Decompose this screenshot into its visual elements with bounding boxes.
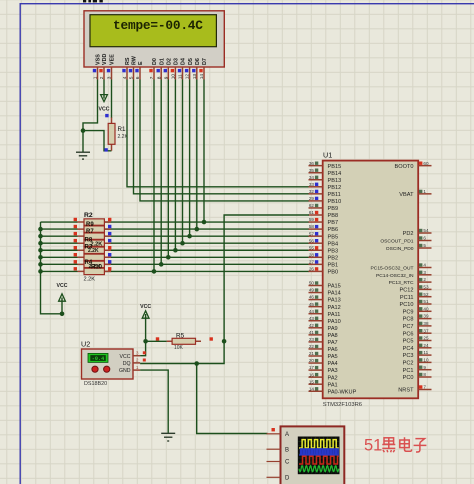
- svg-text:2: 2: [423, 277, 426, 282]
- wire VDD pin2 to VCC power: [103, 80, 105, 99]
- svg-text:6: 6: [135, 76, 141, 79]
- svg-text:58: 58: [309, 224, 315, 229]
- U1 pin PB15 (36): [309, 161, 342, 170]
- svg-text:PA3: PA3: [328, 368, 338, 374]
- U1 pin PA10 (43): [309, 316, 341, 325]
- svg-text:D1: D1: [159, 58, 165, 65]
- svg-text:PA2: PA2: [328, 375, 338, 381]
- junction node bus corner: [60, 312, 65, 317]
- wire DQ branch to oscilloscope A: [197, 364, 268, 434]
- LCD pin 8 D1: [156, 58, 165, 79]
- U1 pin PB6 (58): [309, 224, 339, 233]
- R1 top pin state square: [105, 114, 108, 117]
- junction node bus row 4: [38, 241, 43, 246]
- svg-text:R9: R9: [86, 222, 94, 228]
- svg-text:STM32F103R6: STM32F103R6: [323, 402, 362, 408]
- svg-text:PC10: PC10: [400, 302, 414, 308]
- U1 pin PB4 (56): [309, 238, 339, 247]
- svg-text:PB11: PB11: [328, 192, 341, 198]
- svg-text:PB2: PB2: [328, 255, 339, 261]
- svg-text:38: 38: [423, 321, 429, 326]
- U1 pin PA14 (49): [309, 288, 341, 297]
- wire U2 GND pin to ground: [140, 370, 168, 433]
- svg-text:D3: D3: [174, 58, 180, 65]
- wire D0 (LCD) vertical drop: [153, 80, 155, 272]
- oscilloscope body: [281, 426, 345, 484]
- resistor R5 10K: [167, 338, 201, 344]
- wire data row D6 to U1: [104, 228, 309, 230]
- svg-text:59: 59: [309, 217, 315, 222]
- svg-text:45: 45: [309, 302, 315, 307]
- svg-text:BOOT0: BOOT0: [395, 164, 414, 170]
- svg-text:VCC: VCC: [140, 304, 151, 310]
- svg-text:DQ: DQ: [123, 361, 131, 367]
- U1 pin PA2 (16): [309, 372, 338, 381]
- svg-text:D6: D6: [195, 58, 201, 65]
- svg-text:R2: R2: [84, 212, 93, 219]
- oscilloscope trace channel B (blue): [299, 449, 339, 455]
- svg-text:10: 10: [423, 358, 429, 363]
- svg-text:PC8: PC8: [403, 317, 414, 323]
- U1 pin PC8 (39): [403, 314, 432, 323]
- svg-text:21: 21: [309, 351, 315, 356]
- svg-text:27: 27: [309, 259, 315, 264]
- U2 pin VCC (3): [120, 351, 146, 360]
- U1 pin PB0 (26): [309, 267, 339, 276]
- svg-text:PA1: PA1: [328, 382, 338, 388]
- U1 pin PB14 (35): [309, 168, 342, 177]
- junction node bus row 7: [38, 262, 43, 267]
- temperature sensor U2 DS18B20 body: [82, 349, 134, 379]
- cut-off label text at top edge: [83, 0, 103, 2]
- svg-text:43: 43: [309, 316, 315, 321]
- svg-text:PB4: PB4: [328, 241, 339, 247]
- U1 pin PA0-WKUP (14): [309, 386, 357, 395]
- svg-text:E: E: [138, 61, 144, 65]
- svg-text:15: 15: [309, 379, 315, 384]
- svg-text:PC6: PC6: [403, 331, 414, 337]
- U2 increment button: [92, 366, 98, 372]
- U2 pin DQ (2): [123, 358, 146, 367]
- svg-text:PB9: PB9: [328, 206, 339, 212]
- svg-text:55: 55: [309, 245, 315, 250]
- svg-text:VCC: VCC: [57, 283, 68, 289]
- junction node D6: [195, 227, 200, 232]
- svg-text:41: 41: [309, 330, 315, 335]
- svg-text:R10: R10: [91, 265, 103, 271]
- svg-text:D2: D2: [167, 58, 173, 65]
- svg-text:OSCOUT_PD1: OSCOUT_PD1: [380, 239, 413, 245]
- svg-text:R1: R1: [118, 126, 126, 133]
- svg-text:GND: GND: [119, 368, 131, 374]
- svg-text:VSS: VSS: [96, 54, 102, 65]
- junction node DQ/R5: [222, 339, 227, 344]
- wire D3 (LCD) vertical drop: [174, 80, 176, 251]
- junction node bus row 5: [38, 248, 43, 253]
- svg-text:D7: D7: [202, 58, 208, 65]
- U1 pin PC5 (25): [403, 336, 432, 345]
- svg-text:B: B: [285, 447, 289, 453]
- svg-text:34: 34: [309, 175, 315, 180]
- LCD pin 2 VDD: [99, 54, 108, 80]
- U1 pin PA13 (46): [309, 295, 341, 304]
- junction node D0: [152, 269, 157, 274]
- svg-text:PA10: PA10: [328, 319, 341, 325]
- U1 pin PB7 (59): [309, 217, 339, 226]
- power symbol VCC (down arrow) at VDD: [101, 95, 108, 102]
- resistor R2 row 4: [74, 239, 112, 247]
- svg-text:2: 2: [136, 358, 139, 363]
- U1 pin PC1 (9): [403, 365, 432, 374]
- svg-text:RW: RW: [132, 55, 138, 65]
- U1 pin PC14-OSC32_IN (3): [376, 270, 432, 279]
- watermark glyph hei: [382, 438, 395, 452]
- wire resistor row 4 to VCC bus: [41, 242, 78, 244]
- svg-text:PA12: PA12: [328, 305, 341, 311]
- junction node bus row 2: [38, 227, 43, 232]
- svg-text:PA15: PA15: [328, 284, 341, 290]
- svg-text:PC9: PC9: [403, 309, 414, 315]
- svg-text:PB15: PB15: [328, 164, 342, 170]
- wire D6 (LCD) vertical drop: [196, 80, 198, 230]
- U1 pin OSCIN_PD0 (5): [386, 243, 432, 252]
- svg-text:PB8: PB8: [328, 213, 339, 219]
- svg-text:11: 11: [423, 350, 428, 355]
- svg-text:VDD: VDD: [102, 54, 108, 65]
- svg-text:28: 28: [309, 252, 315, 257]
- U1 pin PB3 (55): [309, 245, 339, 254]
- svg-text:PB1: PB1: [328, 262, 339, 268]
- svg-text:22: 22: [309, 344, 315, 349]
- wire D2 (LCD) vertical drop: [167, 80, 169, 258]
- svg-text:NRST: NRST: [398, 388, 414, 394]
- power symbol VCC near U2: [145, 314, 147, 341]
- U1 pin PA7 (23): [309, 337, 338, 346]
- svg-text:PC0: PC0: [403, 375, 414, 381]
- svg-text:3: 3: [423, 270, 426, 275]
- R5 right pin state square: [210, 337, 213, 340]
- wire VEE pin3 to R1 top: [111, 80, 113, 119]
- svg-text:PA13: PA13: [328, 298, 341, 304]
- svg-text:57: 57: [309, 231, 315, 236]
- svg-text:37: 37: [423, 328, 429, 333]
- U2 pin GND (1): [119, 365, 140, 374]
- U1 pin PC12 (53): [400, 285, 432, 294]
- U1 pin PA3 (17): [309, 365, 338, 374]
- svg-text:11: 11: [178, 74, 184, 79]
- oscilloscope screen graticule: [298, 437, 339, 474]
- svg-text:3: 3: [107, 76, 113, 79]
- junction node VSS/R1-bottom: [81, 128, 86, 133]
- LCD pin 13 D6: [192, 58, 201, 79]
- svg-text:PB14: PB14: [328, 171, 342, 177]
- wire RS (LCD pin4) to U1 PB12: [127, 80, 309, 187]
- U1 pin PC13_RTC (2): [389, 277, 432, 286]
- svg-text:PB6: PB6: [328, 227, 339, 233]
- svg-text:PB10: PB10: [328, 199, 342, 205]
- svg-text:3: 3: [136, 351, 139, 356]
- LCD pin 7 D0: [149, 58, 158, 79]
- svg-text:9: 9: [423, 365, 426, 370]
- svg-text:PB0: PB0: [328, 270, 339, 276]
- svg-text:VBAT: VBAT: [399, 192, 414, 198]
- wire resistor row 8 to VCC bus: [41, 270, 78, 272]
- svg-text:12: 12: [185, 74, 191, 80]
- U1 pin PC3 (11): [403, 350, 432, 359]
- svg-text:PC7: PC7: [403, 324, 414, 330]
- svg-text:35: 35: [309, 168, 315, 173]
- svg-text:36: 36: [309, 161, 315, 166]
- svg-text:5: 5: [129, 76, 135, 79]
- svg-text:VCC: VCC: [99, 107, 110, 113]
- svg-text:20: 20: [309, 358, 315, 363]
- svg-text:PA0-WKUP: PA0-WKUP: [328, 389, 357, 395]
- wire data row D0 to U1: [104, 270, 309, 272]
- junction node bus row 3: [38, 234, 43, 239]
- svg-text:49: 49: [309, 288, 315, 293]
- U1 pin PB11 (32): [309, 189, 341, 198]
- U1 pin PB1 (27): [309, 259, 339, 268]
- svg-text:PA8: PA8: [328, 333, 338, 339]
- wire R1 bottom to ground junction: [83, 131, 112, 151]
- LCD pin 3 VEE: [107, 54, 116, 80]
- wire DQ net: U1 PB8 to R5/DS18B20: [140, 215, 309, 364]
- wire VCC bus (left of resistor pack): [41, 222, 63, 314]
- LCD screen: [90, 15, 216, 47]
- LCD module LCD1 body: [84, 11, 224, 67]
- svg-text:C: C: [285, 460, 290, 466]
- resistor R2 row 5: [74, 246, 112, 253]
- LCD pin 4 RS: [122, 57, 131, 79]
- resistor R2 row 1: [74, 218, 112, 225]
- svg-text:PB7: PB7: [328, 220, 339, 226]
- svg-text:RS: RS: [125, 57, 131, 65]
- svg-text:PA9: PA9: [328, 326, 338, 332]
- U1 pin PA9 (42): [309, 323, 338, 332]
- svg-text:4: 4: [122, 76, 128, 79]
- svg-text:PC15-OSC32_OUT: PC15-OSC32_OUT: [371, 266, 414, 272]
- LCD pin 10 D3: [171, 58, 180, 79]
- resistor R2 row 3: [74, 232, 112, 239]
- U1 pin PB9 (62): [309, 203, 339, 212]
- U1 pin PB13 (34): [309, 175, 342, 184]
- svg-text:PC2: PC2: [403, 361, 414, 367]
- watermark glyph dian: [400, 437, 412, 451]
- svg-text:56: 56: [309, 238, 315, 243]
- svg-text:50: 50: [309, 281, 315, 286]
- junction node DQ/scope branch: [194, 361, 199, 366]
- svg-text:32: 32: [309, 189, 315, 194]
- wire data row D4 to U1: [104, 242, 309, 244]
- svg-text:2.2K: 2.2K: [88, 248, 99, 254]
- svg-text:1: 1: [423, 189, 426, 194]
- sheet border left: [20, 3, 21, 484]
- wire resistor row 6 to VCC bus: [41, 256, 78, 258]
- svg-text:PC4: PC4: [403, 346, 414, 352]
- junction node D7: [202, 220, 207, 225]
- U1 pin PC10 (51): [400, 299, 432, 308]
- svg-text:14: 14: [309, 386, 315, 391]
- svg-text:PA5: PA5: [328, 354, 338, 360]
- svg-text:62: 62: [309, 203, 315, 208]
- wire E (LCD pin6) to U1 PB10: [140, 80, 309, 201]
- wire resistor row 2 to VCC bus: [41, 228, 78, 230]
- wire data row D5 to U1: [104, 235, 309, 237]
- svg-text:40: 40: [423, 306, 429, 311]
- svg-text:46: 46: [309, 295, 315, 300]
- svg-text:PC3: PC3: [403, 353, 414, 359]
- svg-text:PC13_RTC: PC13_RTC: [389, 280, 414, 286]
- U2 decrement button: [104, 366, 110, 372]
- junction node D1: [159, 262, 164, 267]
- svg-text:25: 25: [423, 336, 429, 341]
- U1 pin PA1 (15): [309, 379, 338, 388]
- watermark glyph zi: [414, 439, 427, 452]
- svg-text:6: 6: [423, 236, 426, 241]
- svg-text:tempe=-00.4C: tempe=-00.4C: [113, 18, 203, 33]
- oscilloscope pin A: [267, 432, 290, 438]
- U1 pin PA4 (20): [309, 358, 338, 367]
- svg-text:PA11: PA11: [328, 312, 341, 318]
- svg-text:PC14-OSC32_IN: PC14-OSC32_IN: [376, 273, 414, 279]
- svg-text:PB5: PB5: [328, 234, 339, 240]
- U1 pin PB8 (61): [309, 210, 339, 219]
- wire VSS pin1 to ground: [83, 80, 98, 153]
- svg-text:2.2K: 2.2K: [84, 277, 96, 283]
- svg-text:PB13: PB13: [328, 178, 342, 184]
- junction node bus row 8: [38, 269, 43, 274]
- LCD pin 1 VSS: [93, 54, 102, 80]
- LCD pin 5 RW: [129, 55, 138, 79]
- U1 pin PB5 (57): [309, 231, 339, 240]
- svg-text:29: 29: [309, 196, 315, 201]
- wire U2 VCC pin to junction: [140, 341, 146, 355]
- resistor pack overlapping labels: [85, 222, 103, 271]
- U1 pin PA12 (45): [309, 302, 341, 311]
- svg-text:U1: U1: [323, 151, 332, 160]
- svg-text:24: 24: [423, 343, 429, 348]
- U1 pin BOOT0 (60): [395, 161, 432, 170]
- LCD pin 6 E: [135, 61, 144, 80]
- svg-text:D5: D5: [188, 58, 194, 65]
- svg-text:16: 16: [309, 372, 315, 377]
- U1 pin PA5 (21): [309, 351, 338, 360]
- svg-text:D4: D4: [181, 58, 187, 65]
- svg-text:PC1: PC1: [403, 368, 414, 374]
- resistor R2 row 2: [74, 225, 112, 232]
- svg-text:10: 10: [171, 74, 177, 80]
- LCD pin 9 D2: [163, 58, 172, 79]
- LCD pin 14 D7: [199, 58, 208, 79]
- svg-text:D: D: [285, 476, 290, 482]
- junction node D3: [173, 248, 178, 253]
- U1 pin PB2 (28): [309, 252, 339, 261]
- svg-text:23: 23: [309, 337, 315, 342]
- svg-text:39: 39: [423, 314, 429, 319]
- resistor R2 row 7: [74, 260, 112, 267]
- svg-text:8: 8: [156, 76, 162, 79]
- ground symbol near oscilloscope: [161, 433, 175, 441]
- wire data row D7 to U1: [104, 221, 309, 223]
- U1 pin OSCOUT_PD1 (6): [380, 236, 431, 245]
- svg-text:PB12: PB12: [328, 185, 342, 191]
- wire D7 (LCD) vertical drop: [203, 80, 205, 223]
- wire resistor row 3 to VCC bus: [41, 235, 78, 237]
- U1 pin PA11 (44): [309, 309, 341, 318]
- U1 pin PC2 (10): [403, 358, 432, 367]
- junction node bus row 6: [38, 255, 43, 260]
- R5 left pin state square: [156, 337, 159, 340]
- svg-text:VCC: VCC: [120, 354, 131, 360]
- svg-text:44: 44: [309, 309, 315, 314]
- oscilloscope trace channel D (green): [299, 466, 339, 472]
- junction node D2: [166, 255, 171, 260]
- svg-text:13: 13: [192, 74, 198, 80]
- U1 pin PC7 (38): [403, 321, 432, 330]
- svg-text:A: A: [285, 432, 289, 438]
- svg-text:5: 5: [423, 243, 426, 248]
- svg-text:OSCIN_PD0: OSCIN_PD0: [386, 246, 414, 252]
- svg-text:33: 33: [309, 182, 315, 187]
- U1 pin PD2 (54): [403, 228, 432, 237]
- U1 pin PB12 (33): [309, 182, 342, 191]
- svg-text:42: 42: [309, 323, 315, 328]
- svg-text:-0.4: -0.4: [92, 356, 104, 362]
- junction node D5: [187, 234, 192, 239]
- svg-text:PB3: PB3: [328, 248, 339, 254]
- svg-text:7: 7: [423, 385, 426, 390]
- junction node VCC/R5/U2: [143, 339, 148, 344]
- oscilloscope pin D: [267, 476, 291, 482]
- oscilloscope trace channel A (yellow): [299, 440, 339, 448]
- sheet border top: [20, 3, 474, 4]
- junction node D4: [180, 241, 185, 246]
- wire resistor row 7 to VCC bus: [41, 263, 78, 265]
- svg-text:PA4: PA4: [328, 361, 338, 367]
- svg-text:53: 53: [423, 285, 429, 290]
- U1 pin PC0 (8): [403, 372, 432, 381]
- LCD pin 12 D5: [185, 58, 194, 79]
- svg-text:U2: U2: [81, 339, 90, 348]
- oscilloscope pin B: [267, 447, 290, 453]
- svg-text:51: 51: [364, 437, 382, 455]
- ground symbol near R1: [76, 152, 90, 159]
- svg-text:1: 1: [93, 76, 99, 79]
- microcontroller U1 STM32F103R6 body: [323, 161, 419, 399]
- oscilloscope pin A state square: [272, 428, 275, 431]
- resistor R2 row 8: [74, 267, 112, 275]
- svg-text:61: 61: [309, 210, 315, 215]
- oscilloscope trace channel C (red): [299, 456, 339, 464]
- svg-text:9: 9: [163, 76, 169, 79]
- U1 pin PC4 (24): [403, 343, 432, 352]
- wire D1 (LCD) vertical drop: [160, 80, 162, 265]
- svg-text:PC12: PC12: [400, 288, 414, 294]
- R1 bottom pin state square: [104, 148, 107, 151]
- svg-text:54: 54: [423, 228, 429, 233]
- svg-text:PC11: PC11: [400, 295, 414, 301]
- wire resistor row 5 to VCC bus: [41, 249, 78, 251]
- svg-text:2.2K: 2.2K: [91, 242, 103, 248]
- U1 pin PC15-OSC32_OUT (4): [371, 263, 432, 272]
- oscilloscope screen: [298, 437, 340, 475]
- power symbol VCC at resistor bus: [61, 298, 63, 314]
- svg-text:26: 26: [309, 267, 315, 272]
- svg-text:R7: R7: [86, 229, 94, 235]
- U1 pin PB10 (29): [309, 196, 342, 205]
- svg-text:PC5: PC5: [403, 339, 414, 345]
- svg-text:14: 14: [199, 74, 205, 80]
